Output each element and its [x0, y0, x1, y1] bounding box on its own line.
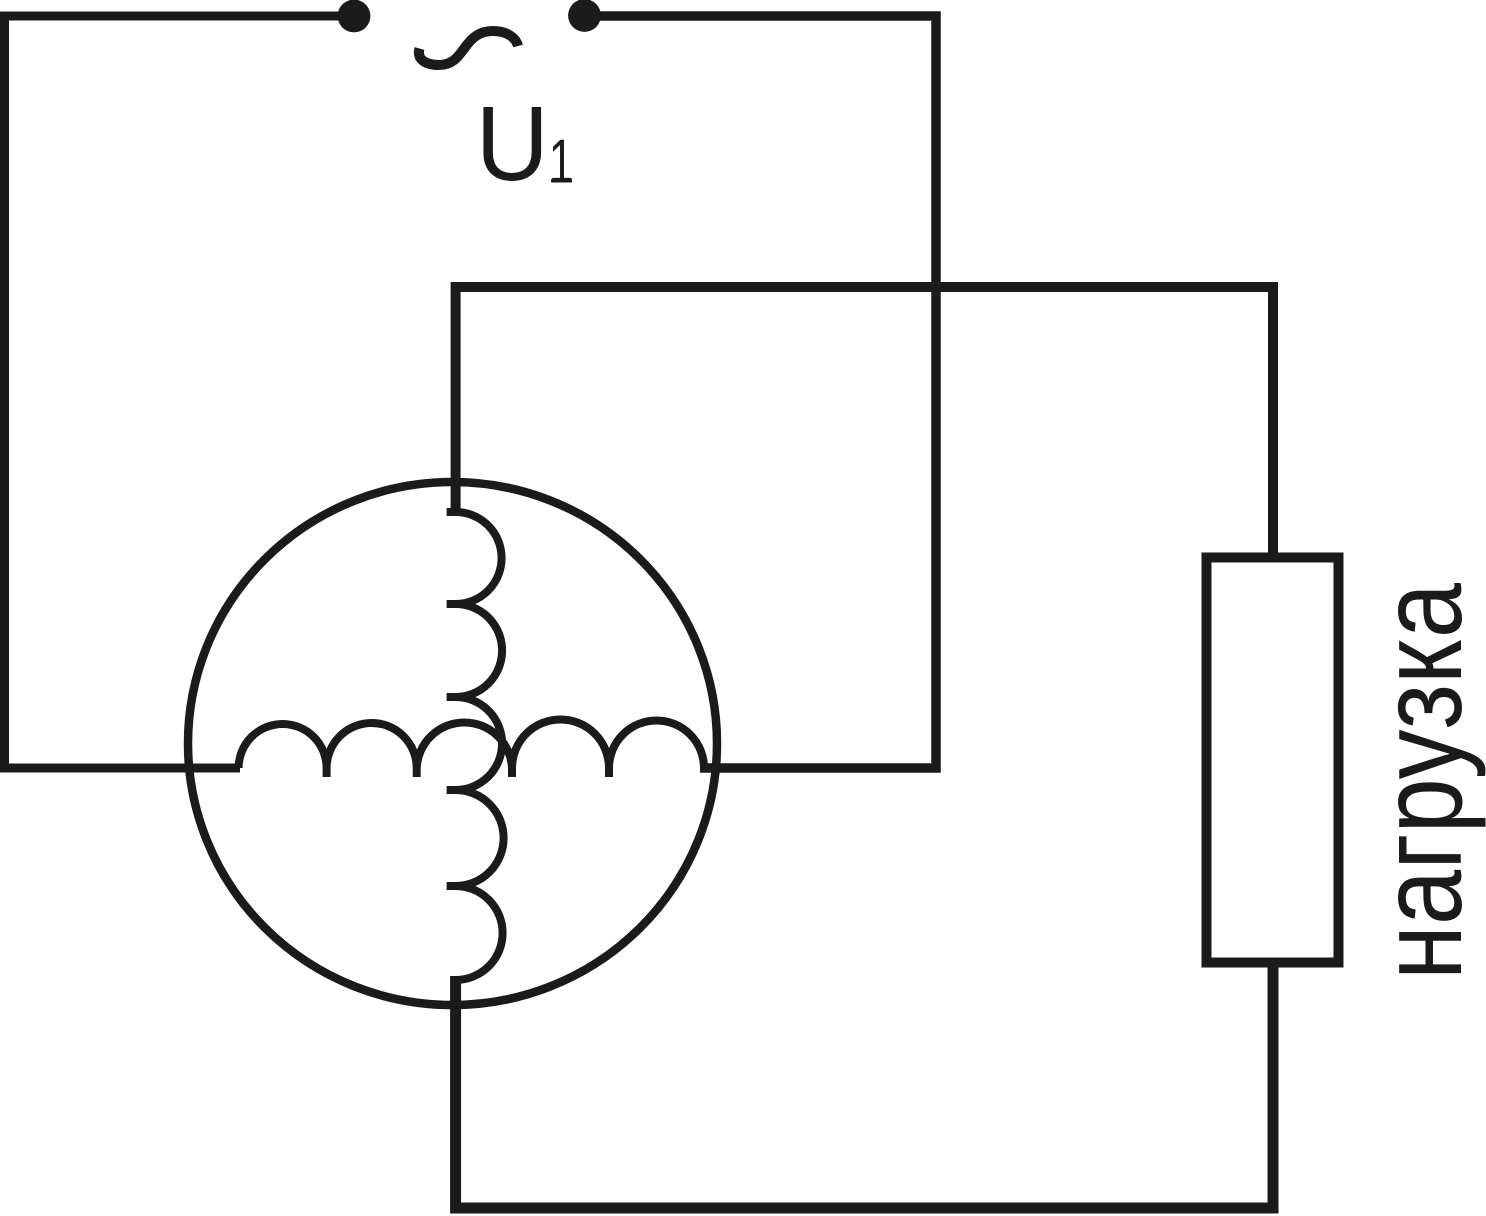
source terminal dot (left)	[338, 0, 371, 32]
load resistor rectangle	[1207, 558, 1339, 963]
wire: load bottom to bottom rail and up to circle bottom	[456, 961, 1273, 1208]
AC source tilde	[419, 31, 518, 65]
wire: inner rectangle top, from circle top up, across to load top	[456, 287, 1273, 559]
stator horizontal winding (left + right coils)	[239, 719, 704, 777]
label U1 subscript serif	[551, 179, 572, 182]
stator vertical winding (top + bottom coils)	[447, 512, 504, 980]
wire: right terminal to right vertical drop and into stator right winding	[578, 16, 936, 768]
wire: left loop from terminal dot down and to stator left winding	[5, 16, 361, 768]
stator circle	[188, 482, 717, 1005]
svg-text:1: 1	[549, 126, 574, 196]
svg-text:U: U	[476, 84, 549, 203]
source terminal dot (right)	[568, 0, 601, 32]
svg-text:нагрузка: нагрузка	[1356, 582, 1486, 980]
